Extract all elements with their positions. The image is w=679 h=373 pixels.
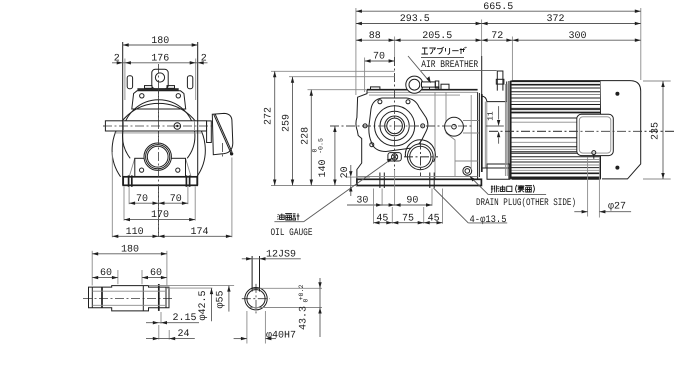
svg-text:2: 2 [201,53,207,64]
svg-text:24: 24 [177,329,189,340]
svg-text:φ55: φ55 [216,290,227,308]
svg-text:140: 140 [318,159,329,177]
svg-text:176: 176 [151,53,169,64]
svg-text:43.3: 43.3 [299,306,310,330]
svg-text:293.5: 293.5 [400,14,430,25]
svg-text:30: 30 [356,195,368,206]
svg-text:12JS9: 12JS9 [266,249,296,260]
svg-text:0: 0 [303,298,310,302]
svg-text:228: 228 [300,127,311,145]
svg-text:11: 11 [487,111,496,121]
svg-text:20: 20 [340,166,351,178]
svg-text:OIL GAUGE: OIL GAUGE [271,228,313,239]
svg-text:75: 75 [402,213,414,224]
svg-text:235: 235 [651,122,662,140]
svg-text:110: 110 [126,227,144,238]
svg-text:665.5: 665.5 [483,2,513,13]
svg-text:45: 45 [428,213,440,224]
svg-text:-0.5: -0.5 [318,138,325,154]
svg-text:259: 259 [282,114,293,132]
svg-text:60: 60 [100,268,112,279]
svg-text:+0.2: +0.2 [298,285,305,301]
svg-text:372: 372 [546,14,564,25]
svg-text:2.15: 2.15 [172,313,196,324]
svg-text:180: 180 [121,245,139,256]
svg-text:φ27: φ27 [608,202,626,213]
svg-text:272: 272 [264,107,275,125]
svg-text:205.5: 205.5 [422,31,452,42]
svg-text:180: 180 [151,36,169,47]
svg-text:90: 90 [406,195,418,206]
svg-text:70: 70 [136,194,148,205]
svg-text:AIR BREATHER: AIR BREATHER [421,60,478,71]
svg-text:φ42.5: φ42.5 [198,290,209,320]
svg-text:174: 174 [190,227,208,238]
svg-text:170: 170 [151,210,169,221]
svg-text:88: 88 [369,31,381,42]
svg-text:72: 72 [491,31,503,42]
svg-text:DRAIN PLUG(OTHER SIDE): DRAIN PLUG(OTHER SIDE) [476,197,576,209]
svg-text:2: 2 [114,53,120,64]
svg-text:60: 60 [150,268,162,279]
svg-text:4-φ13.5: 4-φ13.5 [470,215,507,226]
svg-text:45: 45 [376,213,388,224]
svg-text:300: 300 [568,31,586,42]
svg-text:70: 70 [373,52,385,63]
svg-text:φ40H7: φ40H7 [266,330,296,341]
svg-text:70: 70 [170,194,182,205]
